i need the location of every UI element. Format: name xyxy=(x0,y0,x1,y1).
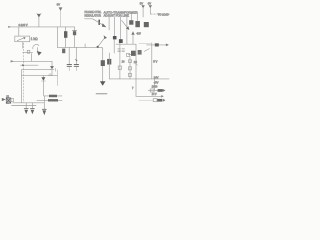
diode D4 blob xyxy=(107,59,111,65)
wire bottom right bus xyxy=(109,78,169,80)
capacitor C6 xyxy=(74,47,78,70)
wire left vertical xyxy=(21,70,23,103)
capacitor C4 vertical xyxy=(72,27,76,48)
ladder top blob xyxy=(127,53,130,56)
wire vertical to bus3 xyxy=(108,53,110,79)
wire right drop xyxy=(56,70,58,86)
node arrow symbol top right 2 with label xyxy=(148,1,152,14)
small diagonal xyxy=(144,49,149,52)
supply arrow symbol with label xyxy=(57,3,63,27)
wire top bus xyxy=(11,26,75,28)
transformer T1 primary left xyxy=(113,17,117,53)
ground xyxy=(100,81,106,86)
adjust arrow diagonal xyxy=(122,20,130,30)
arrow out2 xyxy=(161,95,164,98)
divider ladder vertical xyxy=(129,57,131,79)
svg-text:REGULATOR: REGULATOR xyxy=(85,13,102,17)
capacitor C2 xyxy=(30,103,34,114)
wire bus left vertical xyxy=(56,27,58,48)
SCR cluster blob 2 xyxy=(138,50,142,55)
wire lower input line xyxy=(14,60,53,62)
transformer winding ticks xyxy=(118,49,125,52)
annotation right text block xyxy=(104,10,138,17)
wire bus corner down xyxy=(101,47,104,49)
transformer T1 primary right xyxy=(118,17,125,79)
wire drop to out1 xyxy=(153,79,155,91)
variable resistor box R1 xyxy=(15,36,30,42)
node dot line xyxy=(21,64,39,66)
small tick near ladder xyxy=(136,64,138,65)
node arrow symbol to +V xyxy=(37,13,42,27)
rectifier CR1 blob xyxy=(129,20,133,25)
output line with arrow xyxy=(139,43,169,46)
svg-text:~~~~~~: ~~~~~~ xyxy=(96,92,107,96)
junction box small xyxy=(27,50,30,53)
diode D1 xyxy=(50,66,54,76)
wire short tap xyxy=(108,17,110,30)
wire line A xyxy=(22,69,52,71)
dashed control line xyxy=(23,43,25,102)
input terminal J1 arrow xyxy=(8,26,11,28)
resistor R3 xyxy=(37,99,62,101)
wire relay line upper xyxy=(13,102,45,104)
wire faint out3 xyxy=(139,99,153,101)
svg-text:0-130 V: 0-130 V xyxy=(19,23,28,27)
wire joining resistors xyxy=(43,96,45,100)
stub next to diode xyxy=(54,68,56,71)
wire stub up to base xyxy=(30,54,32,62)
diode D3 blob xyxy=(101,60,105,66)
output connector 1 xyxy=(148,89,165,92)
svg-text:5 V: 5 V xyxy=(153,59,157,63)
wire corner down xyxy=(51,61,53,66)
svg-text:4W: 4W xyxy=(136,31,141,35)
node junction dot xyxy=(97,46,99,48)
supply arrow up xyxy=(131,31,141,44)
dashed line to right edge xyxy=(151,13,170,15)
resistor R2 xyxy=(44,95,62,98)
wire vertical x152 xyxy=(151,43,153,79)
variac wiper arrow xyxy=(98,35,107,46)
wire below box xyxy=(22,42,24,49)
svg-text:PHASE CTRL: PHASE CTRL xyxy=(85,10,102,14)
capacitor C5 xyxy=(67,47,71,70)
wire y54 link xyxy=(129,54,137,56)
capacitor C1 xyxy=(24,103,28,114)
svg-text:5V: 5V xyxy=(140,1,143,5)
wire line B xyxy=(22,75,58,77)
node arrow symbol top right 1 with label xyxy=(140,1,145,17)
svg-text:6V: 6V xyxy=(148,1,151,5)
wire branch to box xyxy=(18,27,20,36)
wire secondary bus xyxy=(57,46,102,48)
svg-text:24: 24 xyxy=(134,60,138,64)
svg-text:TO LOAD: TO LOAD xyxy=(158,13,169,16)
annotation left text block xyxy=(85,10,102,17)
svg-text:ADJUST FOR LINE: ADJUST FOR LINE xyxy=(104,14,129,18)
annotation leader line xyxy=(85,19,107,27)
wire vertical mid-right long xyxy=(135,44,137,96)
output connector 3 xyxy=(153,99,165,102)
svg-text:6V: 6V xyxy=(57,3,61,7)
svg-text:1 kΩ: 1 kΩ xyxy=(31,37,39,41)
wire relay line lower xyxy=(12,105,37,107)
wire vertical to ground xyxy=(102,49,104,82)
wire rectifier stubs xyxy=(131,13,137,22)
resistor R4 vertical xyxy=(62,27,67,53)
svg-text:24 V: 24 V xyxy=(152,94,157,96)
ladder cap 2 xyxy=(129,67,132,70)
SCR cluster blob xyxy=(131,51,136,56)
capacitor C3 xyxy=(42,100,46,115)
transistor Q1 xyxy=(33,44,42,55)
wire horizontal under transformer xyxy=(116,43,136,45)
node stub xyxy=(84,44,86,48)
ladder cap 1 xyxy=(129,60,132,63)
svg-text:1N40: 1N40 xyxy=(152,86,158,89)
transistor Q2 xyxy=(41,76,45,96)
relay K1 contact box xyxy=(2,98,14,104)
wire base line xyxy=(23,51,33,53)
rectifier CR2 blob xyxy=(135,21,140,27)
rectifier CR3 blob xyxy=(144,22,149,27)
input terminal J2 arrow xyxy=(11,60,15,62)
ladder cap 3 xyxy=(129,73,132,76)
wire out2 line xyxy=(136,95,161,97)
wire vertical tap xyxy=(126,17,128,44)
diode D2 small xyxy=(49,73,52,75)
